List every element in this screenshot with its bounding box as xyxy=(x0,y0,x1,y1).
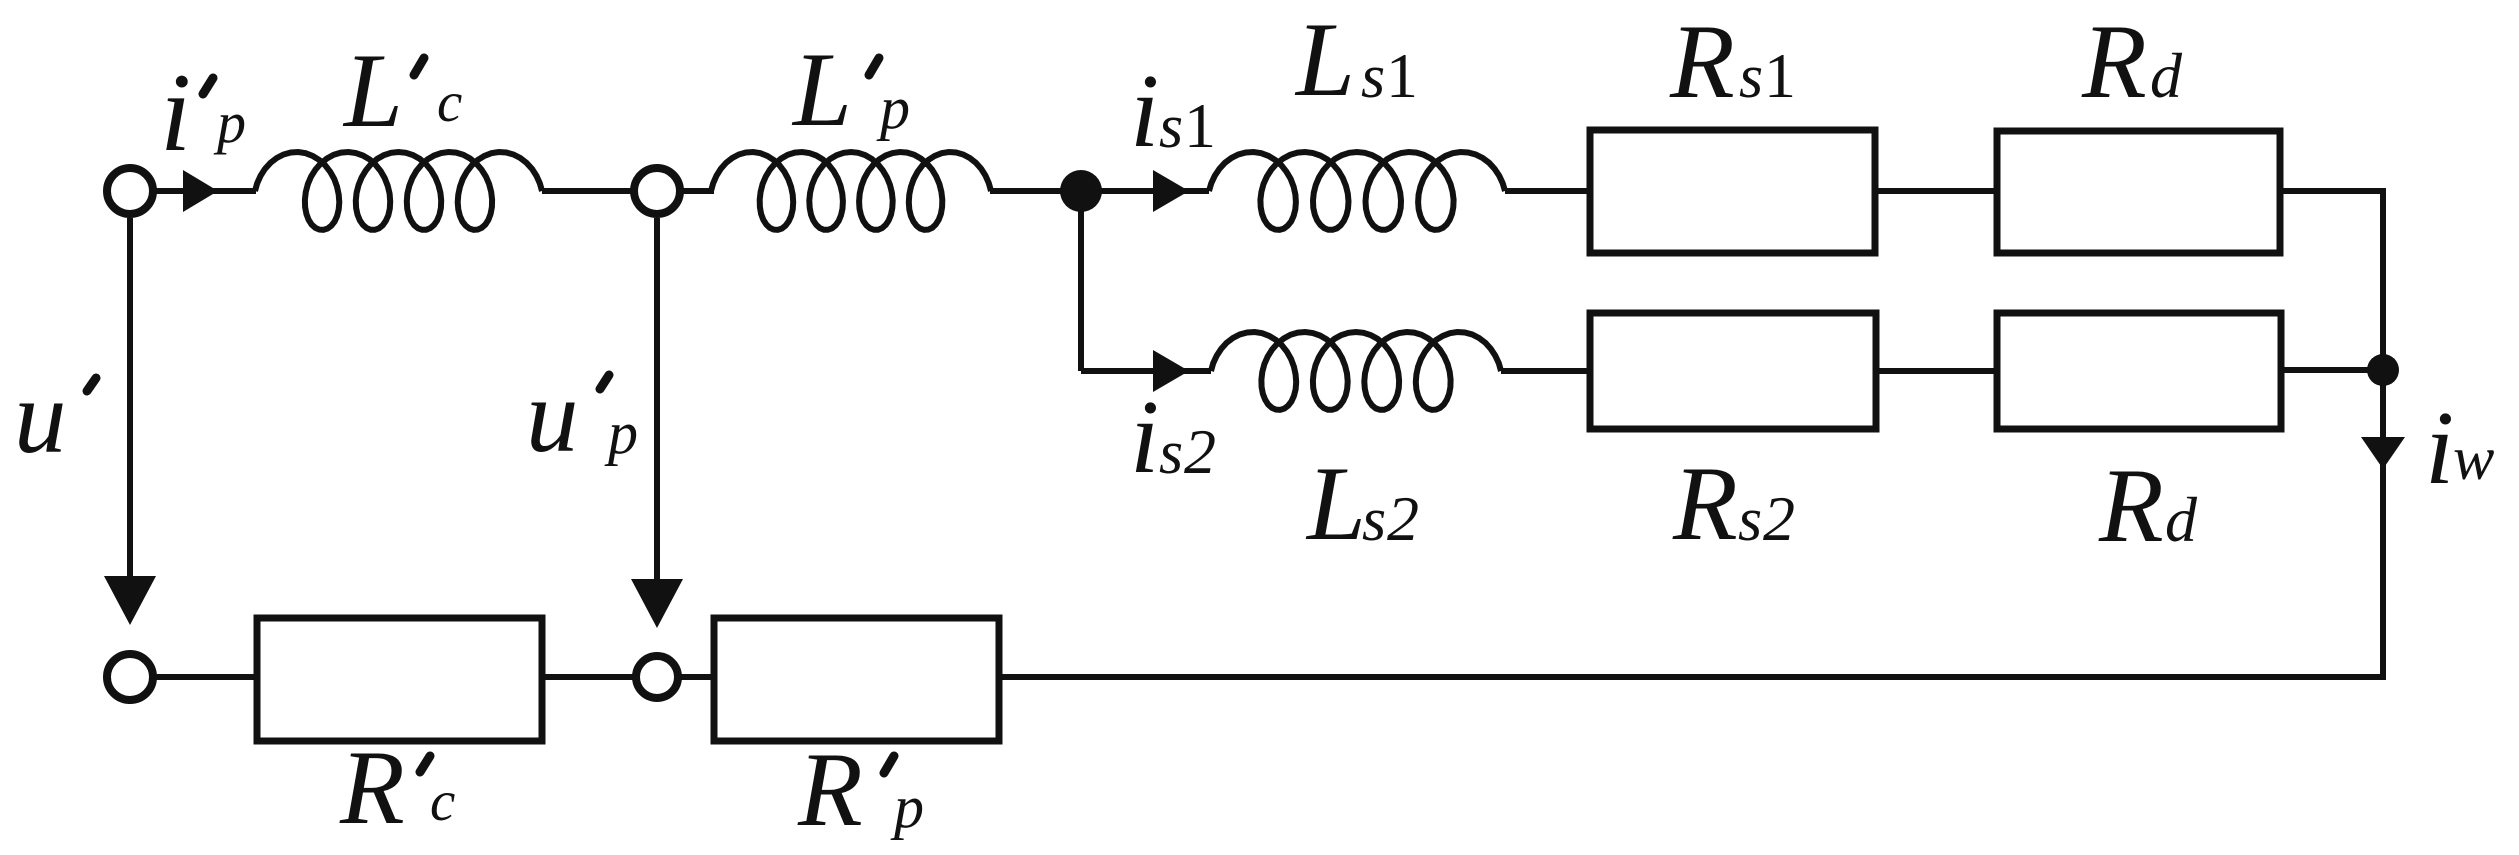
wire: bottom-left terminal to R'c xyxy=(150,674,258,680)
svg-text:1: 1 xyxy=(1386,40,1418,111)
arrow current iw direction xyxy=(2361,437,2405,469)
svg-text:s: s xyxy=(1738,486,1762,554)
svg-text:s: s xyxy=(1362,486,1386,554)
terminal circle bottom-middle xyxy=(636,656,678,698)
resistor Rd top box xyxy=(1997,131,2280,253)
svg-text:p: p xyxy=(876,75,910,141)
wire: junction drop to branch 2 xyxy=(1078,191,1084,371)
svg-text:L: L xyxy=(791,31,852,148)
svg-text:R: R xyxy=(1669,3,1735,120)
svg-text:c: c xyxy=(430,770,455,833)
svg-text:u: u xyxy=(526,357,579,474)
svg-text:R: R xyxy=(2098,447,2164,564)
wire: top-left terminal to L'c xyxy=(150,188,256,194)
svg-text:2: 2 xyxy=(1184,416,1216,487)
svg-text:w: w xyxy=(2453,425,2494,493)
inductor L'p coil xyxy=(711,152,991,230)
svg-text:i: i xyxy=(1130,52,1159,169)
wire: terminal to R'p xyxy=(678,674,715,680)
svg-text:s: s xyxy=(1159,419,1183,487)
svg-text:L: L xyxy=(342,32,403,149)
wire: bottom rail xyxy=(999,674,2386,680)
svg-text:s: s xyxy=(1739,43,1763,111)
svg-text:p: p xyxy=(890,774,924,840)
arrow current is2 direction xyxy=(1153,350,1189,392)
terminal circle top-middle xyxy=(634,168,680,214)
svg-text:L: L xyxy=(1294,1,1355,118)
wire: Rd top to right rail xyxy=(2280,188,2383,194)
svg-text:2: 2 xyxy=(1763,483,1795,554)
node junction dot (split) xyxy=(1060,170,1102,212)
inductor L'c coil xyxy=(255,152,542,230)
wire: Ls1 to Rs1 xyxy=(1505,188,1590,194)
arrow current i'p direction xyxy=(183,170,218,212)
svg-text:p: p xyxy=(604,400,638,466)
resistor Rs1 box xyxy=(1590,130,1875,253)
svg-text:R: R xyxy=(1672,445,1738,562)
wire: Ls2 to Rs2 xyxy=(1501,368,1590,374)
arrow u' voltage direction xyxy=(104,576,156,625)
svg-text:R: R xyxy=(339,729,405,846)
svg-text:i: i xyxy=(1130,378,1159,495)
svg-text:1: 1 xyxy=(1184,90,1216,161)
resistor R'p box xyxy=(714,618,999,741)
svg-text:i: i xyxy=(160,51,191,175)
arrow current is1 direction xyxy=(1153,170,1189,212)
inductor Ls2 coil xyxy=(1211,332,1501,410)
resistor R'c box xyxy=(257,618,542,741)
wire: Rs2 to Rd bottom xyxy=(1876,368,1997,374)
wire: R'c to bottom middle terminal xyxy=(542,674,636,680)
terminal circle bottom-left xyxy=(107,654,153,700)
svg-text:c: c xyxy=(437,71,462,134)
wire: u' voltage line xyxy=(127,218,133,582)
wire: L'c to middle terminal xyxy=(542,188,636,194)
svg-text:R: R xyxy=(797,731,863,848)
wire: middle terminal to L'p xyxy=(678,188,714,194)
terminal circle top-left xyxy=(107,168,153,214)
arrow u'p voltage direction xyxy=(631,579,683,628)
svg-text:1: 1 xyxy=(1764,40,1796,111)
wire: branch 2 start xyxy=(1081,368,1211,374)
svg-text:2: 2 xyxy=(1387,483,1419,554)
svg-text:R: R xyxy=(2081,3,2147,120)
node junction dot (merge) xyxy=(2367,354,2399,386)
inductor Ls1 coil xyxy=(1209,152,1505,230)
svg-text:s: s xyxy=(1159,93,1183,161)
wire: L'p to node junction xyxy=(990,188,1209,194)
svg-text:L: L xyxy=(1305,445,1366,562)
wire: Rd bottom to right rail xyxy=(2281,367,2383,373)
resistor Rs2 box xyxy=(1590,313,1876,429)
svg-text:d: d xyxy=(2150,40,2183,111)
resistor Rd bottom box xyxy=(1997,313,2281,429)
svg-text:p: p xyxy=(213,90,246,155)
svg-text:u: u xyxy=(14,358,67,475)
wire: u'p voltage line xyxy=(654,218,660,585)
svg-text:i: i xyxy=(2425,389,2454,506)
wire: Rs1 to Rd top xyxy=(1875,188,1997,194)
wire: right vertical rail xyxy=(2380,188,2386,677)
svg-text:d: d xyxy=(2165,484,2198,555)
svg-text:s: s xyxy=(1361,43,1385,111)
